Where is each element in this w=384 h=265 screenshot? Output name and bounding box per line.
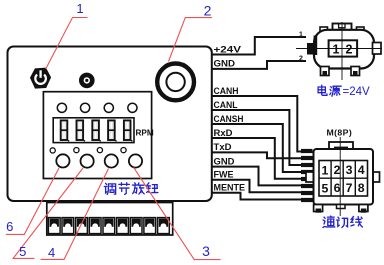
svg-text:7: 7: [346, 181, 353, 195]
svg-text:5: 5: [19, 244, 26, 259]
svg-text:+24V: +24V: [214, 44, 242, 55]
svg-text:MENTE: MENTE: [214, 183, 246, 194]
svg-text:8: 8: [358, 181, 365, 195]
svg-text:3: 3: [346, 163, 353, 177]
svg-text:=24V: =24V: [343, 86, 371, 98]
svg-text:1: 1: [76, 1, 83, 16]
svg-text:4: 4: [48, 245, 55, 260]
svg-text:RPM: RPM: [136, 128, 154, 137]
svg-text:FWE: FWE: [214, 170, 234, 181]
svg-text:TxD: TxD: [214, 142, 232, 153]
svg-text:2: 2: [334, 163, 341, 177]
svg-text:GND: GND: [214, 59, 236, 70]
svg-text:3: 3: [202, 243, 210, 259]
svg-text:6: 6: [334, 181, 341, 195]
svg-text:CANL: CANL: [214, 100, 238, 111]
svg-text:1: 1: [299, 32, 303, 39]
svg-text:2: 2: [299, 56, 303, 63]
svg-text:CANH: CANH: [214, 86, 239, 97]
svg-text:CANSH: CANSH: [214, 114, 244, 125]
svg-text:GND: GND: [214, 156, 235, 167]
svg-text:6: 6: [6, 219, 13, 234]
svg-text:1: 1: [333, 42, 340, 56]
svg-text:4: 4: [358, 163, 365, 177]
svg-text:RxD: RxD: [214, 128, 233, 139]
svg-text:M(8P): M(8P): [327, 128, 353, 138]
svg-text:2: 2: [204, 3, 212, 19]
svg-text:1: 1: [321, 164, 328, 178]
svg-text:2: 2: [346, 42, 353, 56]
svg-text:5: 5: [321, 181, 328, 195]
